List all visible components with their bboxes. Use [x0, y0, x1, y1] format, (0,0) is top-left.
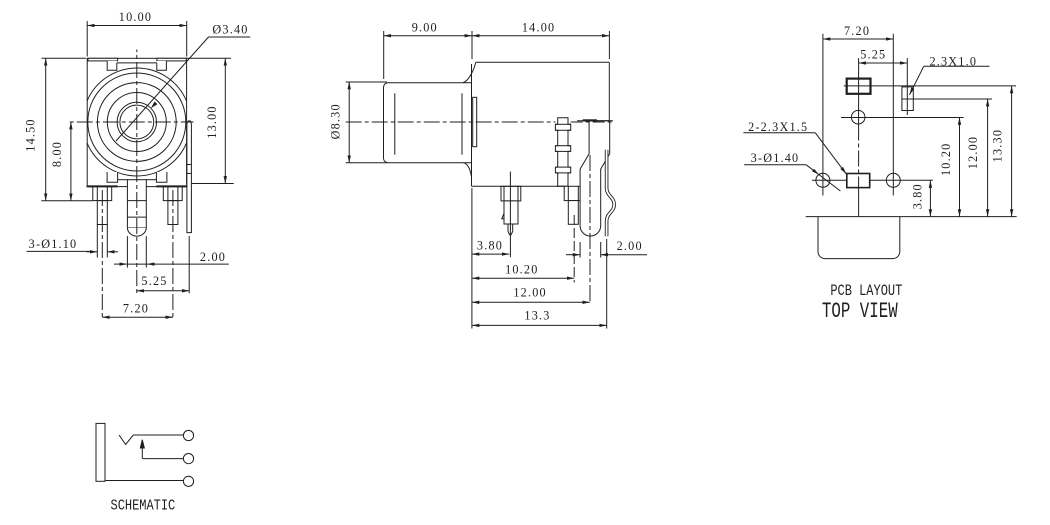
svg-text:14.50: 14.50 [24, 118, 38, 151]
svg-text:3-Ø1.10: 3-Ø1.10 [29, 237, 78, 251]
svg-text:3.80: 3.80 [911, 183, 925, 209]
svg-text:10.20: 10.20 [939, 143, 953, 176]
svg-text:3-Ø1.40: 3-Ø1.40 [751, 151, 800, 165]
svg-text:14.00: 14.00 [522, 21, 555, 35]
svg-text:10.20: 10.20 [505, 262, 538, 276]
svg-text:7.20: 7.20 [844, 24, 870, 38]
svg-text:5.25: 5.25 [860, 47, 886, 61]
svg-text:SCHEMATIC: SCHEMATIC [111, 498, 176, 514]
svg-text:8.00: 8.00 [50, 141, 64, 167]
svg-text:5.25: 5.25 [141, 274, 167, 288]
svg-text:2.00: 2.00 [617, 239, 643, 253]
svg-text:9.00: 9.00 [412, 21, 438, 35]
svg-text:2.00: 2.00 [200, 250, 226, 264]
svg-text:13.00: 13.00 [205, 105, 219, 138]
svg-text:12.00: 12.00 [966, 136, 980, 169]
svg-text:3.80: 3.80 [477, 239, 503, 253]
svg-text:12.00: 12.00 [513, 285, 546, 299]
svg-text:Ø3.40: Ø3.40 [212, 23, 248, 37]
svg-text:7.20: 7.20 [123, 302, 149, 316]
svg-text:Ø8.30: Ø8.30 [329, 103, 343, 139]
svg-text:10.00: 10.00 [119, 10, 152, 24]
svg-text:13.30: 13.30 [990, 129, 1004, 162]
svg-text:2-2.3X1.5: 2-2.3X1.5 [748, 120, 808, 134]
svg-text:2.3X1.0: 2.3X1.0 [929, 54, 977, 68]
svg-text:13.3: 13.3 [524, 308, 550, 322]
svg-text:TOP VIEW: TOP VIEW [822, 299, 898, 324]
